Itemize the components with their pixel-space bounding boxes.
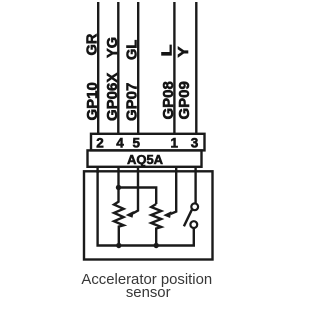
- svg-text:YG: YG: [105, 37, 121, 58]
- svg-text:AQ5A: AQ5A: [127, 152, 164, 167]
- svg-text:1: 1: [170, 135, 178, 150]
- svg-text:3: 3: [191, 135, 199, 150]
- svg-text:L: L: [158, 44, 175, 57]
- svg-text:sensor: sensor: [126, 285, 171, 301]
- svg-text:Y: Y: [176, 46, 192, 58]
- svg-text:4: 4: [116, 135, 124, 150]
- svg-text:GL: GL: [124, 40, 140, 60]
- svg-text:GP07: GP07: [123, 83, 140, 121]
- svg-text:GP10: GP10: [84, 82, 101, 120]
- svg-text:5: 5: [132, 135, 140, 150]
- svg-text:GP08: GP08: [160, 81, 177, 119]
- svg-text:2: 2: [96, 135, 104, 150]
- svg-text:GP06X: GP06X: [104, 73, 121, 121]
- svg-text:GR: GR: [85, 33, 101, 55]
- svg-text:GP09: GP09: [176, 81, 193, 119]
